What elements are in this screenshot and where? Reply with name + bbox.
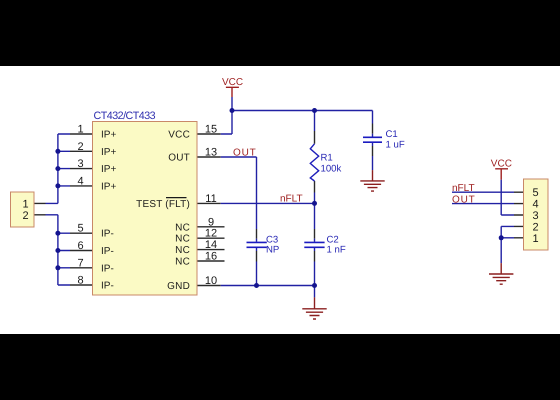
svg-text:1 uF: 1 uF xyxy=(386,140,405,151)
svg-text:14: 14 xyxy=(205,239,217,251)
svg-text:IP+: IP+ xyxy=(101,181,116,192)
svg-text:NC: NC xyxy=(175,222,190,233)
svg-text:CT432/CT433: CT432/CT433 xyxy=(94,110,156,122)
svg-text:4: 4 xyxy=(77,175,83,187)
svg-text:8: 8 xyxy=(77,275,83,287)
svg-text:nFLT: nFLT xyxy=(452,183,475,194)
svg-text:OUT: OUT xyxy=(168,153,190,164)
svg-text:IP+: IP+ xyxy=(101,147,116,158)
svg-text:4: 4 xyxy=(533,199,539,211)
svg-text:2: 2 xyxy=(77,141,83,153)
svg-text:12: 12 xyxy=(205,228,217,240)
svg-text:IP-: IP- xyxy=(101,246,114,257)
svg-text:2: 2 xyxy=(533,221,539,233)
svg-text:1 nF: 1 nF xyxy=(327,244,346,255)
svg-text:1: 1 xyxy=(533,233,539,245)
svg-text:nFLT: nFLT xyxy=(280,194,303,205)
svg-text:5: 5 xyxy=(533,187,539,199)
svg-text:NC: NC xyxy=(175,245,190,256)
svg-text:9: 9 xyxy=(208,216,214,228)
svg-text:OUT: OUT xyxy=(233,148,257,159)
svg-text:15: 15 xyxy=(205,124,217,136)
svg-text:IP-: IP- xyxy=(101,229,114,240)
svg-text:1: 1 xyxy=(22,198,28,210)
svg-text:IP-: IP- xyxy=(101,281,114,292)
svg-text:NC: NC xyxy=(175,234,190,245)
svg-text:13: 13 xyxy=(205,147,217,159)
svg-text:2: 2 xyxy=(22,210,28,222)
svg-text:VCC: VCC xyxy=(168,130,190,141)
svg-text:VCC: VCC xyxy=(491,158,512,169)
svg-text:3: 3 xyxy=(533,210,539,222)
svg-text:16: 16 xyxy=(205,251,217,263)
svg-text:1: 1 xyxy=(77,124,83,136)
svg-text:NP: NP xyxy=(266,244,279,255)
svg-text:10: 10 xyxy=(205,275,217,287)
svg-text:100k: 100k xyxy=(321,164,342,175)
svg-text:3: 3 xyxy=(77,158,83,170)
svg-text:IP+: IP+ xyxy=(101,164,116,175)
svg-text:5: 5 xyxy=(77,223,83,235)
svg-text:7: 7 xyxy=(77,257,83,269)
svg-text:GND: GND xyxy=(167,281,190,292)
svg-text:11: 11 xyxy=(205,193,216,205)
svg-text:OUT: OUT xyxy=(452,195,476,206)
svg-text:6: 6 xyxy=(77,240,83,252)
svg-text:TEST (FLT): TEST (FLT) xyxy=(136,199,190,210)
svg-text:VCC: VCC xyxy=(222,77,243,88)
svg-text:NC: NC xyxy=(175,257,190,268)
svg-text:C1: C1 xyxy=(386,129,398,140)
svg-text:IP-: IP- xyxy=(101,263,114,274)
svg-text:R1: R1 xyxy=(321,152,333,163)
svg-text:IP+: IP+ xyxy=(101,130,116,141)
